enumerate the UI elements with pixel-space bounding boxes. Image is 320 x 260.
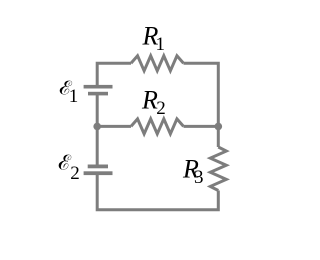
wire: node A to R2	[97, 125, 131, 128]
svg-text:2: 2	[70, 163, 80, 184]
wire: battery E1 top to top-left corner to R1	[97, 63, 131, 85]
svg-text:1: 1	[156, 34, 166, 55]
wire: battery E1 bottom to node A	[96, 95, 99, 127]
svg-text:2: 2	[156, 98, 166, 119]
label R1	[142, 22, 166, 56]
battery (emf source) E1	[84, 85, 113, 96]
label E2 (script E emf symbol)	[57, 155, 80, 184]
node B (junction dot, right)	[215, 123, 223, 131]
svg-text:1: 1	[69, 86, 79, 107]
wire: battery E2 bottom to bottom-left corner, bottom rail, up to R3	[97, 175, 218, 210]
resistor R2	[131, 119, 184, 134]
svg-text:3: 3	[194, 167, 204, 188]
wire: node A down to battery E2	[96, 126, 99, 165]
resistor R3	[210, 147, 226, 191]
wire: R1 to top-right corner down to node B	[184, 63, 219, 126]
wire: R3 top to node B	[217, 126, 220, 147]
resistor R1	[131, 56, 184, 71]
label R3	[182, 155, 204, 189]
battery (emf source) E2	[84, 165, 113, 176]
label E1 (script E emf symbol)	[58, 81, 78, 107]
wire: R2 to node B	[184, 125, 219, 128]
node A (junction dot, left)	[93, 123, 101, 131]
label R2	[141, 86, 166, 119]
